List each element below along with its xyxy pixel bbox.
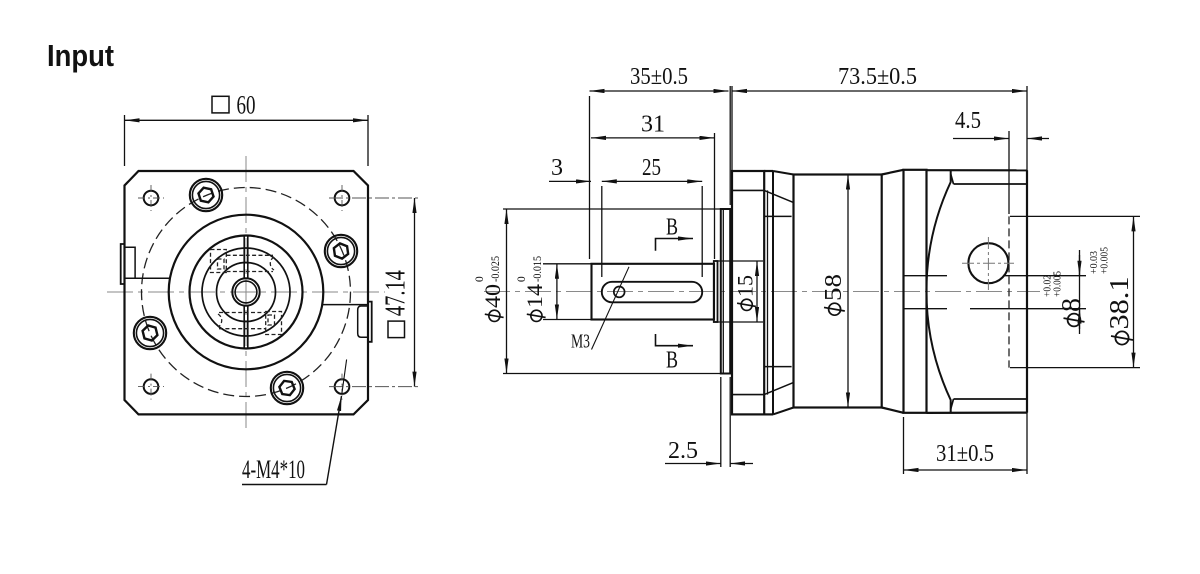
svg-text:38.1: 38.1 bbox=[1104, 277, 1134, 330]
chamfer diagonal top bbox=[951, 174, 954, 184]
phi38.1 recess hidden bbox=[1008, 216, 1010, 367]
dim phi38.1 bbox=[1010, 216, 1140, 367]
dim phi14 bbox=[543, 264, 591, 320]
dim 25 bbox=[602, 181, 702, 277]
dim phi8 bbox=[970, 250, 1086, 334]
dim 2.5 bbox=[665, 377, 753, 467]
svg-text:35±0.5: 35±0.5 bbox=[630, 64, 688, 90]
socket screw top bbox=[190, 179, 222, 211]
circle r56.5 bbox=[190, 236, 303, 349]
dim 31+-0.5 bottom bbox=[904, 417, 1028, 474]
svg-text:3: 3 bbox=[551, 155, 563, 181]
svg-text:4-M4*10: 4-M4*10 bbox=[242, 455, 305, 484]
M3 hole bbox=[614, 287, 625, 298]
end cap bottom edge bbox=[927, 412, 1028, 414]
svg-text:8: 8 bbox=[1056, 298, 1086, 312]
svg-text:M3: M3 bbox=[571, 331, 590, 353]
circle r44 bbox=[202, 248, 290, 336]
svg-text:B: B bbox=[666, 348, 678, 374]
left side tab bbox=[121, 244, 125, 284]
end cap bottom chamfer line bbox=[954, 398, 1028, 400]
flange chamfer line top bbox=[732, 189, 764, 191]
centerline vertical front view bbox=[245, 156, 247, 430]
right tab notch bbox=[358, 306, 368, 337]
corner hole top-left bbox=[138, 185, 164, 211]
svg-text:0: 0 bbox=[516, 276, 528, 282]
svg-text:58: 58 bbox=[821, 274, 847, 301]
svg-text:+0.005: +0.005 bbox=[1099, 247, 1111, 274]
svg-text:+0.005: +0.005 bbox=[1053, 271, 1064, 297]
svg-text:31±0.5: 31±0.5 bbox=[936, 441, 994, 467]
boss chamfer line bbox=[722, 209, 724, 374]
svg-text:15: 15 bbox=[732, 275, 757, 297]
svg-text:31: 31 bbox=[641, 112, 665, 138]
dim 35+-0.5 bbox=[590, 86, 731, 259]
flange chamfer line bottom bbox=[732, 394, 764, 396]
keyway slot bbox=[602, 282, 702, 303]
right face extension up bbox=[1026, 86, 1028, 171]
centerline axis bbox=[484, 291, 1040, 293]
dim 4.5 bbox=[953, 131, 1049, 214]
step diagonals bbox=[882, 170, 904, 175]
svg-text:4.5: 4.5 bbox=[955, 108, 981, 134]
square flange side bbox=[732, 171, 764, 414]
centerline horizontal front view bbox=[107, 291, 385, 293]
svg-text:B: B bbox=[666, 215, 678, 241]
socket screw right bbox=[325, 235, 357, 267]
svg-text:14: 14 bbox=[522, 284, 547, 308]
dim phi15 bbox=[714, 261, 763, 322]
ring section bbox=[767, 190, 769, 394]
end cap top chamfer line bbox=[954, 183, 1028, 185]
svg-text:25: 25 bbox=[642, 155, 661, 181]
flange face extension up bbox=[731, 86, 733, 171]
dimension square-47.14 bbox=[414, 198, 416, 387]
end cap top edge bbox=[927, 169, 1028, 171]
phi8 bore lines bbox=[904, 275, 948, 277]
chamfer diagonal bottom bbox=[951, 399, 954, 409]
ring chamfer top diagonal bbox=[773, 171, 794, 175]
dim 3 bbox=[549, 180, 591, 182]
hook upper-right bbox=[270, 257, 274, 270]
rear ring bbox=[904, 170, 927, 413]
center bore ring outer bbox=[232, 278, 259, 305]
right side tab bbox=[368, 302, 372, 342]
socket screw bottom bbox=[271, 372, 303, 404]
dim 31 bbox=[591, 133, 715, 259]
dim 73.5+-0.5 bbox=[732, 90, 1027, 92]
socket screw left bbox=[134, 317, 166, 349]
hidden screw pocket lower-right bbox=[266, 312, 282, 335]
section mark B upper bbox=[656, 239, 694, 251]
collar phi15 bbox=[714, 261, 718, 322]
M3 leader bbox=[592, 267, 630, 350]
hidden slot lower lines bbox=[219, 312, 266, 314]
circle r29.5 bbox=[217, 263, 276, 322]
main body phi58 bbox=[794, 175, 882, 408]
center bore ring inner bbox=[235, 281, 257, 303]
output face hole bbox=[968, 243, 1008, 283]
svg-text:-0.015: -0.015 bbox=[532, 256, 544, 282]
svg-text:60: 60 bbox=[237, 91, 256, 120]
svg-text:40: 40 bbox=[480, 284, 505, 308]
hidden slot upper lines bbox=[211, 250, 282, 335]
dim phi58 bbox=[847, 175, 849, 408]
end cap right face bbox=[1026, 170, 1028, 412]
svg-text:0: 0 bbox=[474, 276, 486, 282]
dim phi40 bbox=[503, 209, 721, 374]
clamp slit upper bbox=[243, 236, 245, 278]
svg-text:73.5±0.5: 73.5±0.5 bbox=[838, 64, 917, 90]
hook lower-left bbox=[218, 314, 222, 327]
svg-text:-0.025: -0.025 bbox=[490, 256, 502, 282]
clamp slit lower bbox=[243, 306, 245, 348]
dimension square-60 bbox=[125, 115, 369, 166]
hidden screw pocket upper-left bbox=[211, 250, 227, 273]
dashed bolt circle bbox=[142, 188, 351, 397]
svg-text:2.5: 2.5 bbox=[668, 438, 698, 464]
square flange outline bbox=[125, 171, 369, 414]
section mark B lower bbox=[656, 334, 694, 346]
corner hole bottom-left bbox=[138, 374, 164, 400]
end cap arc with stubs bbox=[926, 170, 950, 412]
svg-text:47.14: 47.14 bbox=[381, 270, 412, 316]
input shaft phi14 bbox=[592, 264, 715, 320]
svg-text:Input: Input bbox=[47, 38, 114, 73]
pilot boss phi40 bbox=[721, 209, 730, 374]
boss circle phi40 bbox=[169, 215, 324, 370]
corner hole bottom-right bbox=[329, 374, 419, 400]
corner hole top-right bbox=[329, 185, 419, 211]
left tab notch bbox=[125, 247, 136, 278]
